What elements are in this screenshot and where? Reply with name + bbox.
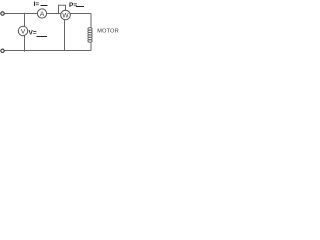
svg-text:A: A (40, 11, 45, 18)
svg-text:V=: V= (29, 29, 37, 36)
svg-text:W: W (62, 13, 69, 20)
svg-text:MOTOR: MOTOR (97, 28, 119, 34)
svg-text:I=: I= (34, 1, 40, 8)
svg-text:V: V (21, 29, 26, 36)
svg-text:P=: P= (69, 2, 77, 9)
